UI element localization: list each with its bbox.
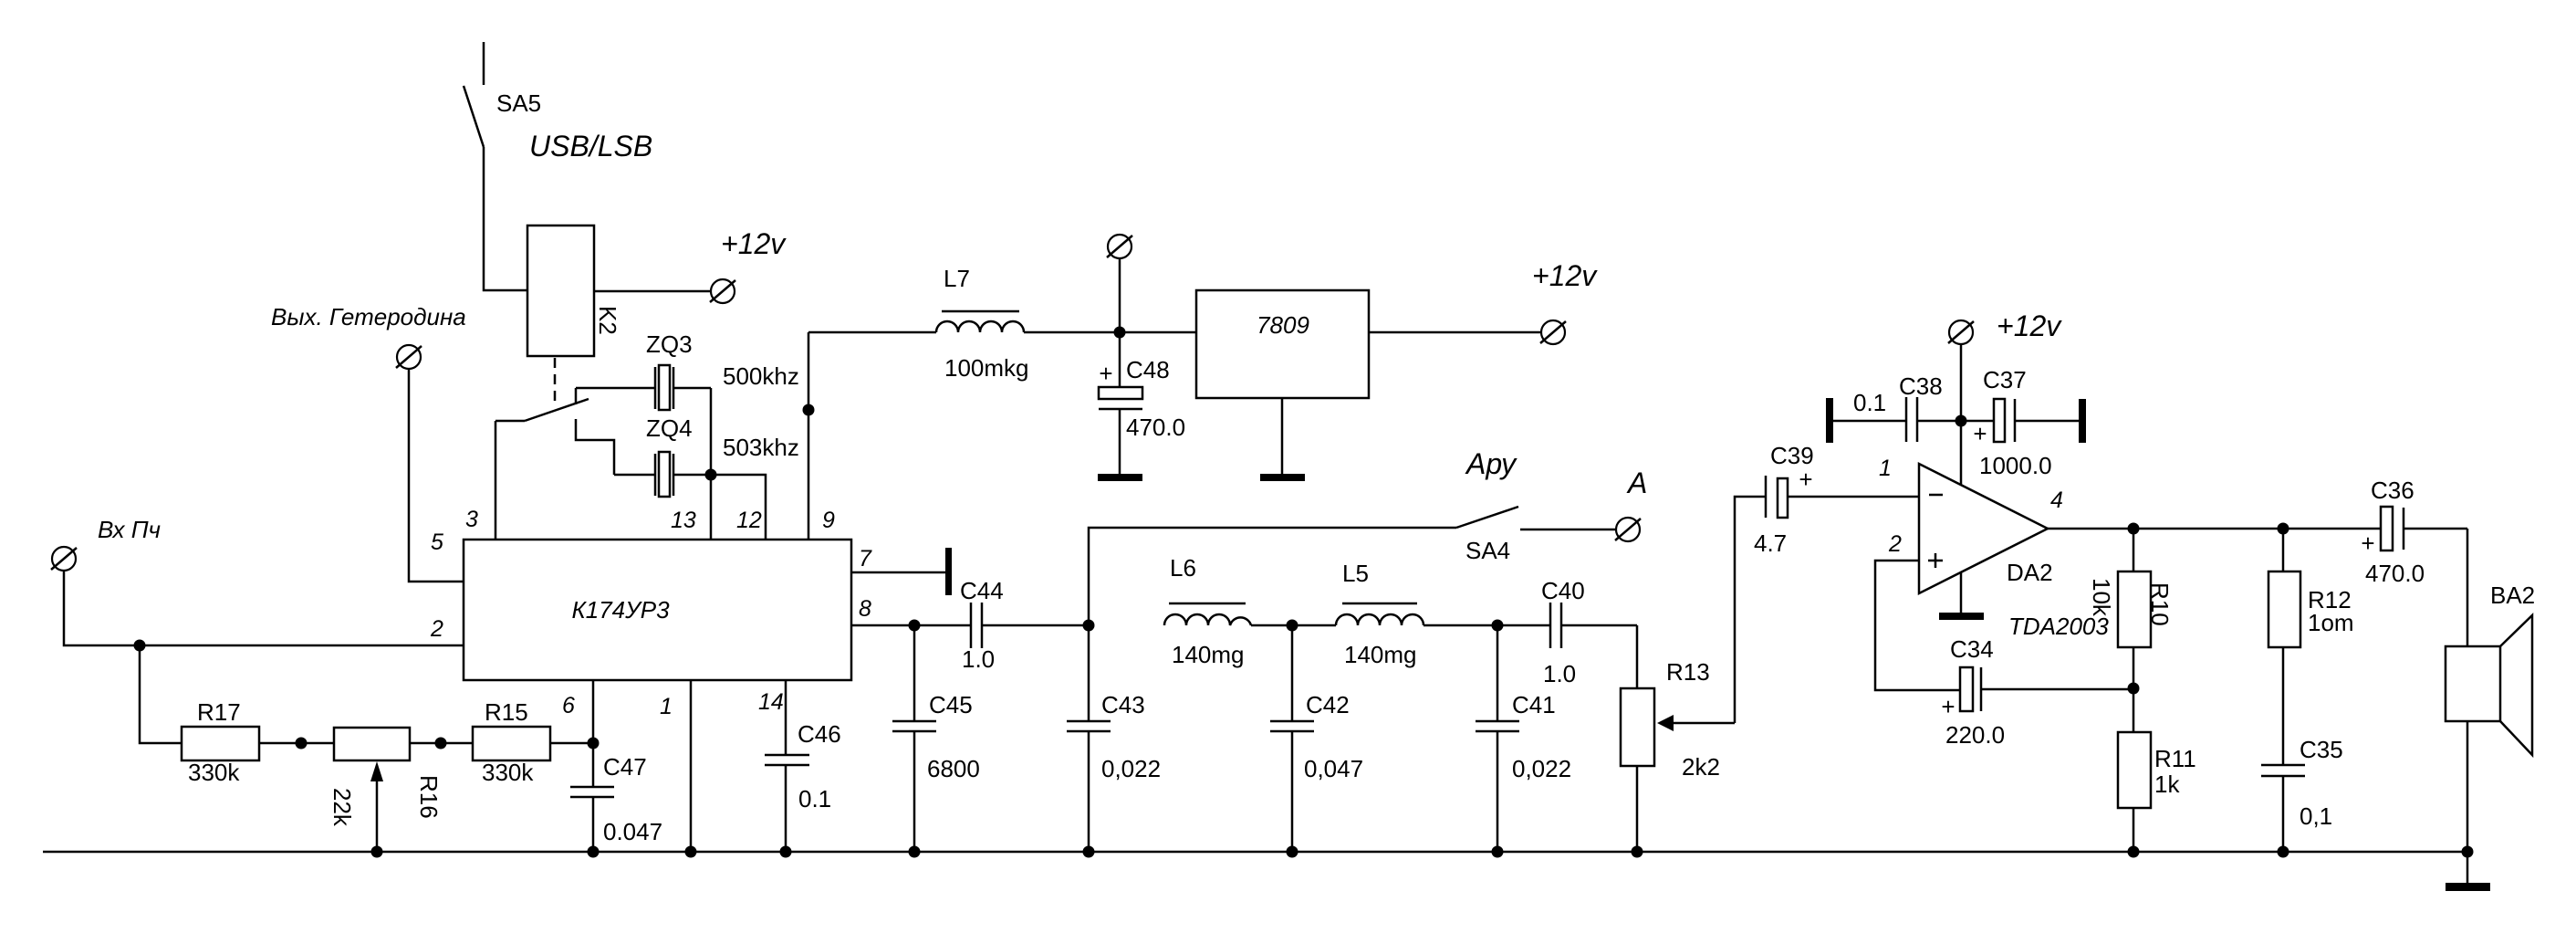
op-amp DA2: [1919, 464, 2109, 640]
wire R13 wiper to C39: [1735, 497, 1766, 723]
junction R16/R15: [435, 738, 447, 750]
terminal +12v output: [1532, 259, 1598, 344]
capacitor C39: [1754, 442, 1919, 557]
wire terminal to C48 node: [1119, 258, 1121, 332]
pin 6 wire: [592, 680, 595, 743]
speaker BA2: [2446, 582, 2535, 755]
pin 7 wire: [851, 571, 945, 574]
crystal ZQ4: [614, 414, 711, 497]
svg-text:SA5: SA5: [496, 89, 541, 117]
crystal ZQ3: [576, 330, 711, 410]
svg-text:C46: C46: [798, 720, 841, 748]
wire pin 5: [409, 370, 464, 582]
svg-text:C45: C45: [929, 691, 973, 718]
ground DA2: [1939, 613, 1984, 620]
junction C35/bus: [2278, 846, 2289, 858]
capacitor C46: [765, 720, 841, 852]
regulator 7809: [1196, 290, 1369, 398]
capacitor C38: [1826, 372, 1961, 443]
wire ground bus: [43, 851, 2467, 854]
terminal +12v input (top): [1107, 235, 1132, 258]
svg-text:12: 12: [736, 508, 762, 533]
capacitor C47: [570, 743, 662, 852]
svg-text:1.0: 1.0: [1543, 660, 1576, 687]
ground 7809: [1260, 474, 1305, 481]
svg-text:R10: R10: [2146, 582, 2174, 626]
svg-text:C37: C37: [1983, 366, 2027, 393]
wire R15 to pin 6 node: [550, 742, 593, 745]
junction C42/bus: [1287, 846, 1298, 858]
junction C47/bus: [588, 846, 600, 858]
capacitor C35: [2261, 736, 2343, 852]
wire R17 to R16: [259, 742, 334, 745]
svg-text:7809: 7809: [1257, 311, 1309, 339]
wire L5 to C40 node: [1424, 624, 1497, 627]
svg-text:L7: L7: [944, 265, 970, 292]
junction pin 8 node: [909, 620, 921, 632]
svg-text:5: 5: [431, 529, 443, 555]
svg-text:3: 3: [465, 507, 478, 532]
pin 3 wire: [495, 421, 497, 540]
terminal +12v DA2: [1948, 309, 2062, 344]
svg-text:4.7: 4.7: [1754, 529, 1787, 557]
svg-text:R16: R16: [415, 775, 443, 819]
junction R13/bus: [1632, 846, 1643, 858]
svg-text:C43: C43: [1101, 691, 1145, 718]
svg-text:2k2: 2k2: [1682, 753, 1720, 781]
svg-text:470.0: 470.0: [2365, 560, 2425, 587]
svg-text:C41: C41: [1512, 691, 1556, 718]
svg-text:K2: K2: [594, 306, 621, 335]
svg-text:R13: R13: [1666, 658, 1710, 686]
resistor R10: [2088, 529, 2174, 688]
potentiometer R16: [329, 728, 443, 852]
svg-text:6800: 6800: [927, 755, 980, 782]
switch crystal selector: [495, 388, 614, 475]
junction R16/bus: [371, 846, 383, 858]
svg-text:C47: C47: [603, 753, 647, 781]
switch SA5: [464, 42, 541, 147]
svg-text:0,022: 0,022: [1101, 755, 1161, 782]
svg-text:R15: R15: [485, 698, 528, 726]
svg-text:L5: L5: [1342, 560, 1369, 587]
wire K2 to +12v terminal: [594, 290, 711, 293]
wire R16 to R15: [410, 742, 473, 745]
junction R11/bus: [2128, 846, 2140, 858]
svg-text:8: 8: [859, 596, 871, 622]
svg-text:0,047: 0,047: [1304, 755, 1363, 782]
svg-text:+: +: [1799, 466, 1812, 493]
wire DA2 output: [2048, 528, 2133, 530]
svg-text:R17: R17: [197, 698, 241, 726]
junction C45/bus: [909, 846, 921, 858]
svg-text:1.0: 1.0: [962, 645, 995, 673]
svg-text:2: 2: [1888, 531, 1902, 557]
terminal Вых. Гетеродина: [271, 303, 466, 369]
wire C36 to BA2: [2466, 529, 2469, 646]
svg-text:7: 7: [859, 546, 872, 571]
svg-text:0.1: 0.1: [798, 785, 831, 812]
switch SA4: [1456, 447, 1616, 564]
svg-text:330k: 330k: [482, 759, 534, 786]
relay K2: [527, 225, 621, 356]
svg-text:+: +: [1973, 420, 1987, 447]
svg-text:470.0: 470.0: [1126, 414, 1185, 441]
junction C44/L6/SA4 node: [1083, 620, 1095, 632]
mechanical link (dashed): [554, 358, 557, 407]
pin 14 wire: [785, 680, 787, 755]
resistor R17: [182, 698, 259, 786]
wire DA2 pin 2 feedback: [1875, 561, 1960, 690]
svg-text:+: +: [1099, 360, 1112, 387]
svg-text:А: А: [1626, 466, 1647, 499]
potentiometer R13: [1621, 658, 1735, 852]
svg-text:C38: C38: [1899, 372, 1943, 400]
svg-text:L6: L6: [1170, 554, 1196, 582]
svg-text:2: 2: [430, 616, 443, 642]
capacitor C36: [2283, 477, 2467, 587]
capacitor C44: [914, 577, 1089, 673]
pin 9 wire: [808, 332, 810, 540]
svg-text:+12v: +12v: [1997, 309, 2062, 342]
resistor R12: [2268, 529, 2354, 765]
svg-text:0.047: 0.047: [603, 818, 662, 845]
svg-text:DA2: DA2: [2007, 559, 2053, 586]
svg-text:22k: 22k: [329, 788, 356, 827]
svg-text:+: +: [2361, 529, 2374, 557]
junction C43/bus: [1083, 846, 1095, 858]
wire node to 7809: [1120, 331, 1196, 334]
pin 7 termination bar: [945, 548, 952, 595]
wire input to pin 2: [64, 571, 464, 645]
terminal Вх Пч: [51, 516, 161, 571]
wire C40 to R13: [1636, 625, 1639, 688]
ground C48: [1098, 474, 1142, 481]
svg-text:C36: C36: [2371, 477, 2414, 504]
wire DA2 ground: [1960, 572, 1963, 613]
resistor R11: [2118, 688, 2196, 852]
svg-text:14: 14: [758, 689, 784, 715]
wire pin 9 to L7: [808, 331, 936, 334]
capacitor C45: [892, 625, 980, 852]
IC DA1 K174УР3: [464, 540, 851, 680]
capacitor C40: [1497, 577, 1637, 687]
svg-text:+12v: +12v: [1532, 259, 1598, 292]
junction C38/C37 node: [1955, 415, 1967, 427]
svg-text:13: 13: [671, 508, 696, 533]
svg-text:C42: C42: [1306, 691, 1350, 718]
junction L6/L5/C42 node: [1287, 620, 1298, 632]
junction pin1/bus: [685, 846, 697, 858]
wire +12v to DA2: [1960, 344, 1963, 485]
pin 8 wire: [851, 624, 914, 627]
junction pin 6 node: [588, 738, 600, 750]
svg-text:SA4: SA4: [1465, 537, 1510, 564]
wire L6 to L5: [1251, 624, 1336, 627]
svg-text:TDA2003: TDA2003: [2008, 613, 2109, 640]
pin 12 wire: [711, 475, 766, 540]
svg-text:C40: C40: [1541, 577, 1585, 604]
svg-text:10k: 10k: [2088, 578, 2115, 617]
wire BA2 to bus: [2466, 721, 2469, 852]
svg-text:1k: 1k: [2154, 771, 2180, 798]
junction C46/bus: [780, 846, 792, 858]
svg-text:C48: C48: [1126, 356, 1170, 383]
terminal A: [1615, 466, 1647, 541]
svg-text:503khz: 503khz: [723, 434, 799, 461]
junction output/R10 node: [2128, 523, 2140, 535]
wire L7 to C48 node: [1024, 331, 1120, 334]
svg-text:220.0: 220.0: [1945, 721, 2005, 749]
svg-text:1: 1: [660, 694, 673, 719]
junction R12/C36 node: [2278, 523, 2289, 535]
capacitor C41: [1476, 625, 1571, 852]
svg-text:140mg: 140mg: [1172, 641, 1245, 668]
svg-text:C35: C35: [2300, 736, 2343, 763]
svg-text:1om: 1om: [2308, 609, 2354, 636]
svg-text:ZQ3: ZQ3: [646, 330, 693, 358]
wire output node to R12 node: [2133, 528, 2283, 530]
capacitor C43: [1067, 625, 1161, 852]
junction C41/bus: [1492, 846, 1504, 858]
junction BA2/bus node: [2462, 846, 2474, 858]
svg-text:Вх Пч: Вх Пч: [98, 516, 161, 543]
capacitor C37: [1961, 366, 2086, 479]
svg-text:BA2: BA2: [2490, 582, 2535, 609]
svg-text:4: 4: [2050, 487, 2063, 513]
svg-text:9: 9: [822, 508, 835, 533]
svg-text:100mkg: 100mkg: [944, 354, 1029, 382]
junction C41/C40 node: [1492, 620, 1504, 632]
svg-text:C34: C34: [1950, 635, 1994, 663]
capacitor C48: [1099, 332, 1185, 474]
capacitor C42: [1270, 625, 1363, 852]
junction C48 node: [1114, 327, 1126, 339]
junction crystals node: [705, 469, 717, 481]
inductor L5: [1336, 560, 1424, 668]
svg-text:0,1: 0,1: [2300, 802, 2332, 830]
svg-text:C44: C44: [960, 577, 1004, 604]
resistor R15: [473, 698, 550, 786]
svg-text:ZQ4: ZQ4: [646, 414, 693, 442]
inductor L7: [936, 265, 1029, 382]
wire SA4 net: [1089, 528, 1456, 625]
svg-text:6: 6: [562, 693, 575, 718]
svg-text:К174УР3: К174УР3: [571, 596, 670, 624]
junction R10/R11/C34 node: [2128, 683, 2140, 695]
capacitor C34: [1941, 635, 2133, 749]
svg-text:R11: R11: [2154, 745, 2196, 772]
pin 1 wire: [690, 680, 693, 852]
wire input node down to R17: [140, 645, 182, 743]
inductor L6: [1164, 554, 1251, 668]
wire 7809 output: [1369, 331, 1541, 334]
svg-text:500khz: 500khz: [723, 362, 799, 390]
svg-text:140mg: 140mg: [1344, 641, 1417, 668]
pin 13 wire: [710, 475, 713, 540]
svg-text:0.1: 0.1: [1853, 389, 1886, 416]
wire SA5 to relay K2: [484, 147, 527, 290]
junction input node: [134, 640, 146, 652]
svg-text:1: 1: [1879, 456, 1892, 481]
svg-text:0,022: 0,022: [1512, 755, 1571, 782]
ground main: [2446, 852, 2490, 891]
svg-text:330k: 330k: [188, 759, 240, 786]
svg-text:Ару: Ару: [1465, 447, 1517, 480]
node on pin 9 wire: [803, 404, 815, 416]
svg-text:+: +: [1941, 693, 1955, 720]
svg-text:USB/LSB: USB/LSB: [529, 130, 652, 162]
svg-text:Вых. Гетеродина: Вых. Гетеродина: [271, 303, 466, 330]
wire 7809 ground: [1281, 398, 1284, 474]
svg-text:1000.0: 1000.0: [1979, 452, 2052, 479]
junction R17/R16: [296, 738, 308, 750]
wire ZQ3 to ZQ4 node: [710, 388, 713, 475]
terminal +12v (relay supply): [710, 227, 787, 303]
svg-text:+12v: +12v: [721, 227, 787, 260]
